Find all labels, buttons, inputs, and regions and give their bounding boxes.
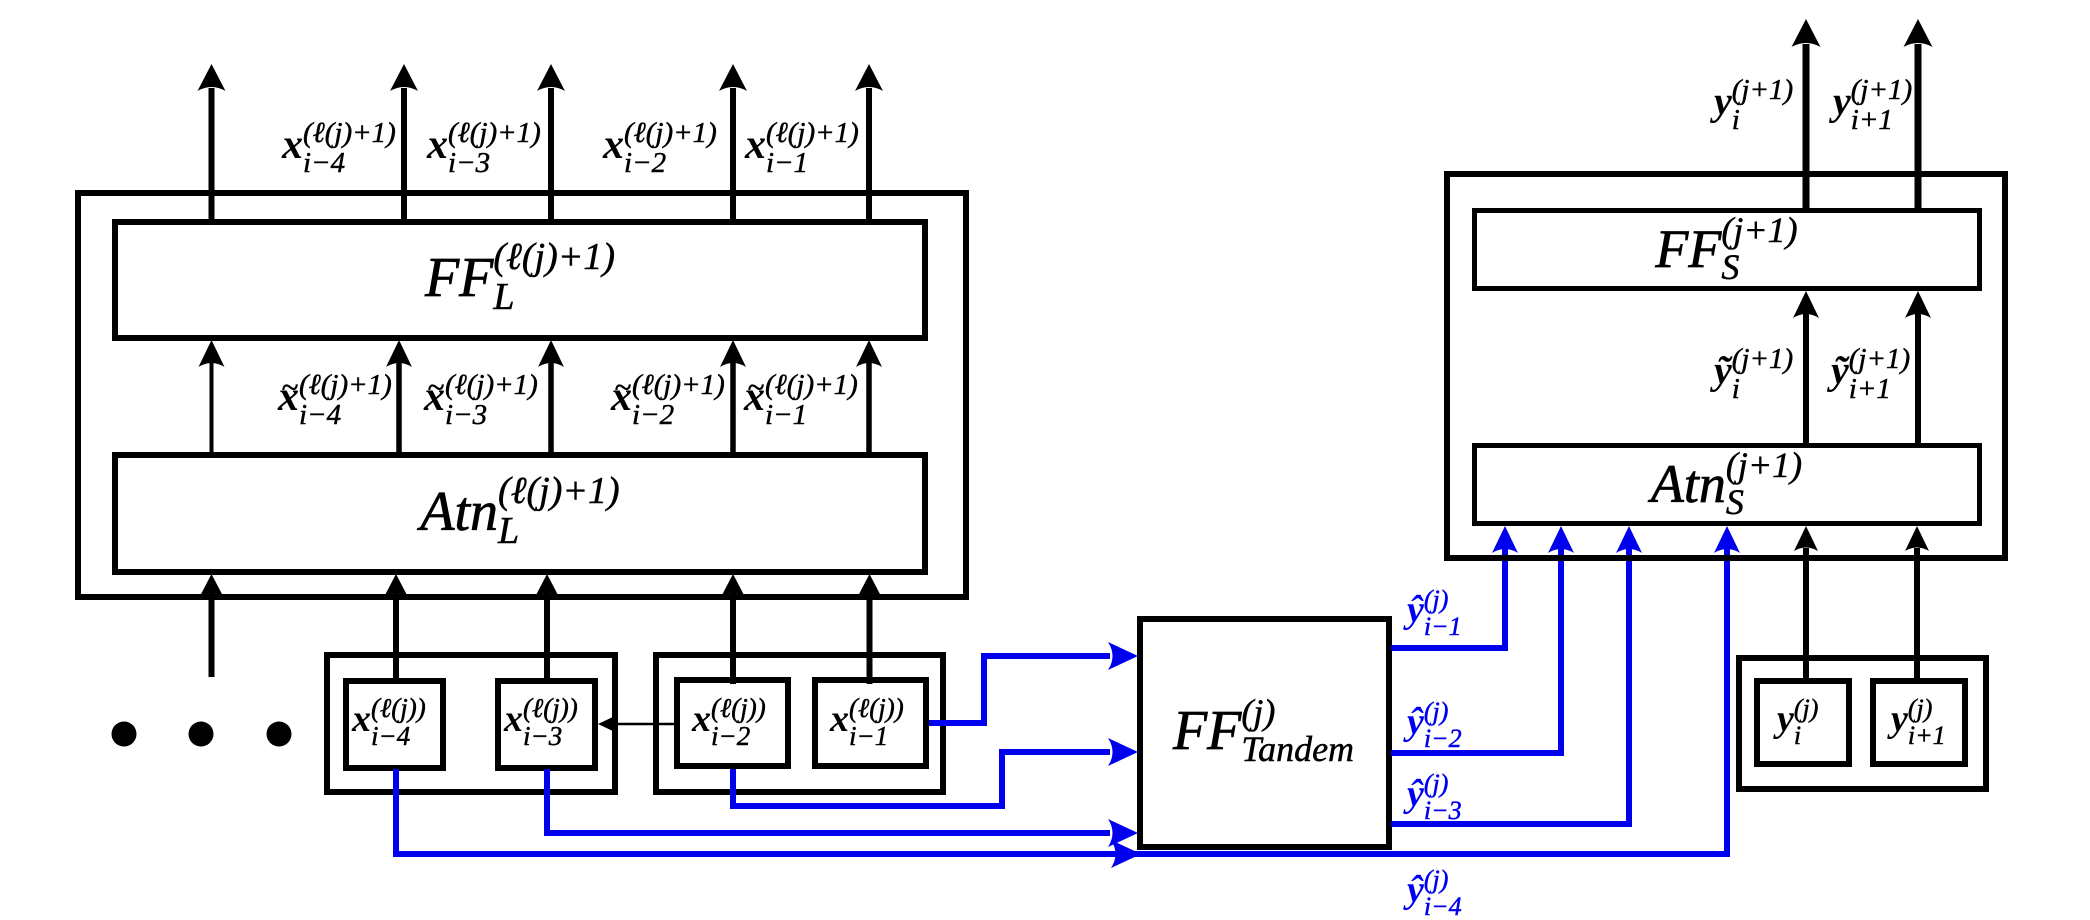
label ytilde_i^(j+1) (1714, 344, 1793, 404)
label Atn_S (1474, 445, 1979, 523)
block Atn_S rectangle (1475, 446, 1980, 524)
block: x_i-1 small box (815, 680, 926, 766)
label y_i+1^(j) in box (1891, 695, 1946, 749)
arrow: x_i-2 box to Atn_L (730, 592, 736, 684)
arrow: top output col3 (548, 88, 554, 222)
arrow: x_i-4 box to Atn_L (393, 592, 399, 684)
block Atn_L rectangle (115, 455, 925, 572)
label ytilde_i+1^(j+1) (1831, 344, 1910, 404)
label x_i-3 in box (504, 694, 578, 750)
block: x_i-2 small box (677, 680, 788, 766)
label y_i^(j) in box (1777, 695, 1818, 749)
arrow: Atn_S to FF_S col2 (1915, 314, 1921, 445)
label FF_S (1474, 210, 1979, 288)
block: right layer outer box (1447, 174, 2005, 558)
label x_i-3^(l(j)+1) top (427, 118, 541, 178)
label xtilde_i-3 mid (424, 370, 538, 430)
arrow: x_i-3 box to Atn_L (544, 592, 550, 684)
arrow: x_i-2 to x_i-3 (thin) (614, 723, 674, 726)
arrow: Atn_S to FF_S col1 (1803, 314, 1809, 445)
label y-hat_i-2 (blue) (1407, 698, 1462, 752)
label xtilde_i-4 mid (278, 370, 392, 430)
label Atn_L (115, 453, 925, 570)
block: y_i small box (1757, 681, 1849, 764)
wire: x_i-3 to FF_Tandem input 3 (blue) (547, 769, 1110, 833)
label xtilde_i-1 mid (744, 370, 858, 430)
label y-hat_i-4 (blue) (1407, 866, 1462, 920)
arrow: Atn_L to FF_L col3 (548, 362, 554, 455)
block: input group box right (x_i-2, x_i-1) (656, 655, 943, 792)
arrow: y_i+1 box to Atn_S (1914, 548, 1920, 684)
arrow: bottom input col1 stub (209, 592, 215, 677)
arrow: top output col4 (730, 88, 736, 222)
block: x_i-3 small box (498, 681, 595, 768)
wire: FF_Tandem output y-hat_i-3 to Atn_S (blue) (1391, 548, 1629, 824)
block: output group box (y_i, y_i+1) (1739, 658, 1986, 789)
arrow: top output col1 (209, 88, 215, 222)
arrow: Atn_L to FF_L col2 (396, 362, 402, 455)
arrow: Atn_L to FF_L col1 (210, 362, 214, 455)
label x_i-1 in box (830, 694, 904, 750)
label FF_Tandem (1140, 617, 1387, 845)
block: left layer outer box (78, 193, 966, 597)
block FF_L rectangle (115, 222, 925, 338)
block FF_Tandem box (1140, 619, 1389, 847)
label y_i+1^(j+1) top (1833, 75, 1912, 135)
block: y_i+1 small box (1873, 681, 1965, 764)
label xtilde_i-2 mid (611, 370, 725, 430)
ellipsis dot 1 (112, 722, 137, 747)
label x_i-2^(l(j)+1) top (603, 118, 717, 178)
arrow: y_i box to Atn_S (1803, 548, 1809, 684)
label x_i-2 in box (692, 694, 766, 750)
label x_i-4^(l(j)+1) top (282, 118, 396, 178)
wire: FF_Tandem output y-hat_i-2 to Atn_S (blue) (1391, 548, 1561, 753)
label x_i-1^(l(j)+1) top (745, 118, 859, 178)
label y-hat_i-1 (blue) (1407, 586, 1462, 640)
block: input group box left (x_i-4, x_i-3) (327, 655, 615, 792)
wire: x_i-2 to FF_Tandem input 2 (blue) (733, 752, 1110, 806)
label FF_L (115, 220, 925, 336)
arrow: Atn_L to FF_L col5 (866, 362, 872, 455)
arrow: top output col5 (866, 88, 872, 222)
ellipsis dot 3 (267, 722, 292, 747)
ellipsis dot 2 (189, 722, 214, 747)
block FF_S rectangle (1475, 211, 1980, 289)
arrow: top output col2 (401, 88, 407, 222)
arrow: right top output y_i (1803, 44, 1810, 210)
label y-hat_i-3 (blue) (1407, 770, 1462, 824)
arrow: x_i-1 box to Atn_L (867, 592, 873, 684)
wire: FF_Tandem output y-hat_i-1 to Atn_S (blue) (1391, 548, 1505, 648)
wire: x_i-1 to FF_Tandem input 1 (blue) (929, 656, 1110, 723)
label x_i-4 in box (352, 694, 426, 750)
label y_i^(j+1) top (1714, 75, 1793, 135)
block: x_i-4 small box (346, 681, 443, 768)
arrow: Atn_L to FF_L col4 (730, 362, 736, 455)
wire: x_i-4 under FF_Tandem to Atn_S (blue) (396, 548, 1727, 854)
arrow: right top output y_i+1 (1915, 44, 1922, 210)
